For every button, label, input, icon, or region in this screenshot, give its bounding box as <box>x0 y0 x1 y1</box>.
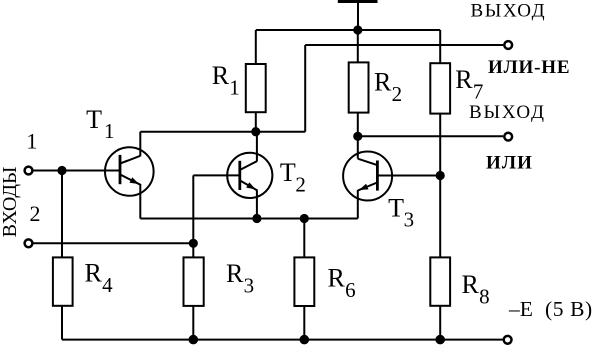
resistor R7 <box>430 63 450 113</box>
svg-text:3: 3 <box>244 273 255 297</box>
svg-text:R: R <box>374 68 392 97</box>
resistor R8 <box>430 257 450 305</box>
junction: T3 base / R7-R8 node <box>436 171 445 180</box>
wire: T2 collector riser <box>256 132 258 162</box>
svg-text:–E: –E <box>508 297 533 321</box>
wire: T2 base lead <box>193 174 239 176</box>
svg-text:ИЛИ-НЕ: ИЛИ-НЕ <box>488 57 570 78</box>
junction: bottom bus / R6 <box>300 335 310 345</box>
svg-text:4: 4 <box>102 273 113 297</box>
svg-text:R: R <box>212 61 230 90</box>
terminal: NOR output <box>504 41 512 49</box>
junction: emitter bus / R6 <box>300 214 309 223</box>
wire: T1 emitter drop <box>139 184 141 219</box>
transistor T1 collector diagonal <box>120 156 140 164</box>
wire: R6 riser <box>303 219 305 258</box>
wire: R2 bottom stem / T3 collector riser <box>357 113 359 159</box>
resistor R3 <box>184 257 204 306</box>
svg-text:8: 8 <box>479 284 490 308</box>
svg-text:6: 6 <box>345 278 356 302</box>
transistor T1 base bar <box>119 155 122 184</box>
resistor R2 <box>349 62 369 112</box>
terminal: -E supply <box>504 336 512 344</box>
transistor T2 emitter diagonal <box>240 180 257 190</box>
ground bar (common rail symbol at top) <box>338 0 378 3</box>
transistor T2 collector diagonal <box>240 161 257 170</box>
svg-text:2: 2 <box>392 82 403 106</box>
wire: input 2 lead <box>33 242 193 244</box>
wire: T3 emitter drop <box>357 190 359 219</box>
wire: T1 collector riser <box>139 132 141 157</box>
svg-text:ВЫХОД: ВЫХОД <box>471 1 547 22</box>
svg-text:(5 В): (5 В) <box>545 297 593 321</box>
transistor T3 emitter arrow <box>359 184 369 190</box>
wire: T2 base riser to R3 <box>192 175 194 257</box>
wire: T2 emitter drop <box>256 190 258 219</box>
resistor R1 <box>246 64 266 112</box>
svg-text:1: 1 <box>229 76 240 100</box>
svg-text:ИЛИ: ИЛИ <box>486 152 533 173</box>
wire: NOR riser <box>304 45 306 132</box>
junction: NOR node at R1 bottom <box>251 127 260 136</box>
transistor T3 circle <box>343 152 392 201</box>
wire: emitter bus <box>140 218 357 220</box>
wire: OR output to terminal <box>358 135 503 137</box>
terminal: OR output <box>504 133 512 141</box>
wire: ground bar stem <box>357 3 359 30</box>
wire: bottom bus <box>62 339 503 341</box>
svg-text:3: 3 <box>404 208 415 232</box>
junction: bottom bus / R3 <box>189 335 199 345</box>
transistor T2 emitter arrow <box>246 182 255 189</box>
transistor T2 circle <box>227 153 272 198</box>
svg-text:R: R <box>226 259 244 288</box>
wire: top rail y=30 <box>256 29 440 31</box>
transistor T2 base bar <box>238 161 241 190</box>
wire: R6 bottom stem <box>303 306 305 340</box>
wire: R1 top stem <box>255 30 257 64</box>
wire: R7 bottom stem down to R8 <box>439 114 441 258</box>
junction: emitter bus / T2 emitter <box>252 214 261 223</box>
resistor R4 <box>53 257 73 305</box>
wire: R2 top stem <box>357 30 359 62</box>
terminal: input 2 <box>25 239 33 247</box>
svg-text:Т: Т <box>280 158 296 187</box>
svg-text:ВЫХОД: ВЫХОД <box>469 102 546 123</box>
transistor T3 collector diagonal <box>358 159 377 165</box>
wire: R4 bottom stem <box>61 306 63 340</box>
junction: rail / R2 node <box>353 25 362 34</box>
svg-text:2: 2 <box>295 173 306 197</box>
junction: bottom bus / R8 <box>435 335 445 345</box>
junction: input 1 / R4 node <box>57 166 66 175</box>
svg-text:R: R <box>85 259 103 288</box>
wire: input 1 lead / T1 base lead <box>33 170 119 172</box>
junction: OR node at R2 bottom <box>353 132 362 141</box>
resistor R6 <box>294 257 314 306</box>
wire: NOR node horizontal <box>140 131 305 133</box>
svg-text:R: R <box>455 65 473 94</box>
transistor T1 emitter diagonal <box>120 174 140 184</box>
wire: T3 base lead <box>378 175 440 177</box>
svg-text:R: R <box>328 264 346 293</box>
svg-text:1: 1 <box>104 119 115 143</box>
wire: NOR output to terminal <box>305 44 503 46</box>
svg-text:7: 7 <box>473 79 484 103</box>
wire: R7 top stem <box>439 30 441 63</box>
svg-text:1: 1 <box>26 129 37 154</box>
transistor T1 circle <box>105 147 154 196</box>
terminal: input 1 <box>25 167 33 175</box>
junction: input 2 / R3 node <box>189 239 198 248</box>
transistor T1 emitter arrow <box>130 177 139 184</box>
transistor T3 emitter diagonal <box>358 183 377 191</box>
wire: R3 bottom stem <box>192 306 194 340</box>
svg-text:R: R <box>462 270 480 299</box>
transistor T3 base bar <box>376 161 379 191</box>
wire: R4 top stem from input 1 <box>61 171 63 258</box>
svg-text:ВХОДЫ: ВХОДЫ <box>0 167 21 238</box>
svg-text:Т: Т <box>86 105 102 134</box>
wire: R8 bottom stem <box>439 306 441 340</box>
svg-text:Т: Т <box>388 193 404 222</box>
wire: R1 bottom stem <box>255 112 257 132</box>
svg-text:2: 2 <box>30 201 41 226</box>
